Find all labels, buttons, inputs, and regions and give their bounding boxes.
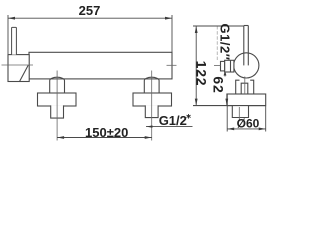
mount 1 flange — [38, 93, 77, 106]
svg-text:G1/2: G1/2 — [159, 113, 187, 128]
G1/2 leader (front) — [146, 126, 193, 128]
G1/2 label drop line — [216, 26, 218, 60]
62 dim line lower segment — [226, 94, 228, 106]
top extension line G1/2 — [193, 25, 244, 27]
dimension 150±20 line — [57, 137, 152, 139]
svg-text:∗: ∗ — [186, 113, 192, 120]
left end cap — [8, 55, 29, 82]
bar centerline left overshoot — [2, 64, 34, 66]
mount 2 centerline — [151, 71, 153, 141]
62 dim line upper segment (behind knob) — [224, 64, 226, 77]
dimension 257 extension line left — [7, 15, 9, 54]
svg-text:Ø60: Ø60 — [237, 116, 260, 130]
mount 2 flange — [133, 93, 172, 106]
side mount shoulder — [236, 80, 254, 94]
Ø60 dim line — [227, 128, 266, 130]
mount 1 pipe — [51, 105, 64, 118]
wall line — [193, 105, 266, 107]
dimension 150±20 arrow right — [145, 136, 152, 139]
below-wall pipe — [232, 106, 248, 118]
svg-text:62: 62 — [211, 76, 227, 93]
bar body — [29, 52, 172, 79]
mount 1 dome — [50, 77, 65, 93]
side flange — [227, 94, 266, 106]
122 dim line — [195, 26, 197, 106]
svg-text:122: 122 — [194, 61, 210, 87]
mount 2 pipe — [145, 105, 158, 117]
dimension 257 arrow left — [8, 17, 15, 20]
dimension 150±20 arrow left — [57, 136, 64, 139]
mount 1 centerline — [56, 71, 58, 141]
side knob — [225, 60, 234, 72]
dimension 257 line — [8, 17, 172, 19]
side circle (bar cross-section) — [234, 53, 259, 78]
side centerline stub left of knob — [214, 64, 221, 66]
svg-text:G1/2″: G1/2″ — [218, 24, 233, 61]
below pipe centerline — [238, 107, 240, 120]
riser pipe — [243, 26, 245, 66]
svg-text:257: 257 — [79, 3, 101, 18]
dimension 257 arrow right — [165, 17, 172, 20]
side mount centerline — [244, 77, 246, 95]
side mount collar — [241, 83, 248, 94]
Ø60 extension lines — [226, 106, 228, 132]
bar centerline right overshoot — [167, 64, 177, 66]
cap internal diagonal — [20, 65, 29, 81]
dimension 257 extension line right — [171, 15, 173, 52]
lever handle — [12, 27, 17, 54]
mount 2 dome — [144, 77, 159, 93]
svg-text:150±20: 150±20 — [85, 125, 128, 140]
